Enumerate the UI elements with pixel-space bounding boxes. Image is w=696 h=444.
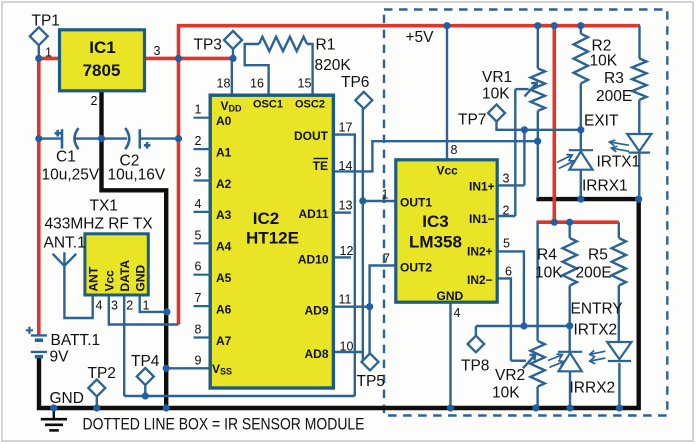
dashed IR sensor module box [384,10,667,416]
IC2 HT12E box [210,95,333,388]
wire VR2 top lead [536,222,538,341]
svg-text:TP7: TP7 [458,112,486,129]
potentiometer VR1 wiper arrow [525,83,537,97]
svg-text:A5: A5 [216,271,232,285]
svg-text:9: 9 [195,353,202,367]
node VR1 bottom TE joint [534,138,541,145]
wire IRTX2 cathode to ground [618,363,620,408]
resistor R3 200E [632,59,646,100]
svg-text:R5: R5 [588,247,608,264]
svg-text:IRRX1: IRRX1 [582,178,628,195]
svg-text:EXIT: EXIT [584,113,619,130]
svg-text:A3: A3 [216,208,232,222]
svg-text:IC1: IC1 [89,38,115,57]
svg-text:13: 13 [339,199,353,213]
wire lower +5V rail (red) [536,220,618,224]
wire IC2 pin10 AD8 stub [335,351,363,353]
svg-text:10K: 10K [492,385,520,402]
svg-text:2: 2 [91,94,98,108]
wire TX1 pin3 vcc to +9V [109,296,179,324]
svg-text:TP8: TP8 [461,358,489,375]
svg-text:TP3: TP3 [194,37,222,54]
svg-text:5: 5 [503,237,510,251]
wire TX1 pin4 to antenna [64,266,92,318]
svg-text:ANT: ANT [87,266,101,291]
svg-text:A2: A2 [216,177,232,191]
svg-text:10K: 10K [482,86,510,103]
wire VR2 wiper lead [511,360,526,362]
svg-text:LM358: LM358 [409,233,462,252]
svg-text:18: 18 [217,77,231,91]
svg-text:OUT1: OUT1 [400,196,432,210]
svg-text:R4: R4 [537,247,557,264]
svg-text:4: 4 [195,197,202,211]
node OUT2 AD9 joint [366,303,373,310]
wire R5 top lead [618,222,620,238]
wire R2 bottom lead to IRRX1 [580,83,582,150]
resistor R4 10K [563,238,577,286]
svg-text:TP2: TP2 [88,365,116,382]
test point TP6 [355,92,372,109]
IC2 pin2 stub [194,148,211,150]
node TX gnd joint [163,308,170,315]
IC2 pin3 stub [194,179,211,181]
node R2 top rail joint [577,22,584,29]
wire IC2 pin9 VSS to ground [166,367,208,369]
wire IC2 pin18 VDD [231,58,233,93]
node TP2 gnd joint [93,404,100,411]
test point TP7 [488,105,505,122]
svg-text:2: 2 [126,299,133,313]
wire R4 bottom to IRRX2 [569,286,571,352]
wire VR1 bottom lead to ground corner [537,111,539,198]
svg-text:+5V: +5V [406,29,435,46]
ground symbol [41,408,67,430]
potentiometer VR1 10K body [531,68,545,111]
svg-text:433MHZ RF TX: 433MHZ RF TX [45,216,154,233]
node C1 C2 center [98,135,105,142]
wire DOUT pin17 down [335,135,355,396]
node +9V junction [175,55,182,62]
svg-text:R1: R1 [316,37,336,54]
TX1 module box [85,234,148,295]
wire IC1 pin1 input (red) [39,57,59,61]
wire IC2 pin11 AD9 stub [335,306,370,308]
svg-text:17: 17 [339,121,353,135]
node IN1+ TP7 joint [521,126,528,133]
wire R4 top lead [569,222,571,238]
wire +9V vertical to TX vcc (red) [177,58,181,324]
svg-text:ANT.1: ANT.1 [44,235,86,252]
node IRRX1 black bus joint [577,196,584,203]
IC2 pin7 stub [194,305,211,307]
svg-text:2: 2 [503,204,510,218]
node R4 top rail joint [566,219,573,226]
wire IC2 pin13 stub [335,211,351,213]
node R2 IRRX1 joint [577,126,584,133]
svg-text:IN1+: IN1+ [469,180,495,194]
svg-text:IRRX2: IRRX2 [570,380,616,397]
wire R3 top lead [638,26,640,59]
wire TP8 stem [475,326,477,336]
test point TP8 [468,336,485,353]
svg-text:10K: 10K [590,53,618,70]
wire IC1 pin3 output to TP3 (red) [146,57,233,61]
wire IC3 pin8 vcc [446,26,448,159]
svg-text:AD11: AD11 [298,207,328,221]
wire R1 right lead to OSC2 pin15 [307,44,313,94]
svg-text:6: 6 [195,260,202,274]
svg-text:TP6: TP6 [341,74,369,91]
wire VR1 wiper lead [515,88,528,90]
wire R5 bottom to IRTX2 anode [618,286,620,343]
svg-text:3: 3 [195,166,202,180]
node VR2 gnd joint [532,404,539,411]
node IRRX2 gnd joint [566,404,573,411]
svg-text:12: 12 [340,244,354,258]
node IRTX2 gnd joint [616,404,623,411]
svg-text:TE: TE [313,159,328,173]
wire IC3 pin5 IN2+ down [499,251,524,326]
wire VR1 top lead [537,26,539,69]
svg-text:IN2−: IN2− [467,273,493,287]
svg-text:BATT.1: BATT.1 [51,332,101,349]
capacitor C1 10u,25V [55,128,79,149]
node IRTX1 black corner joint [635,196,642,203]
svg-text:200E: 200E [576,265,612,282]
node C2 rail right [175,135,182,142]
svg-text:C1: C1 [56,149,76,166]
node black bus gnd joint [163,404,170,411]
svg-text:10u,25V: 10u,25V [42,167,100,184]
svg-text:AD8: AD8 [304,347,328,361]
svg-text:OUT2: OUT2 [400,261,432,275]
svg-text:3: 3 [111,299,118,313]
test point TP4 [137,368,154,385]
svg-text:15: 15 [298,77,312,91]
svg-text:TP5: TP5 [357,373,385,390]
svg-text:200E: 200E [596,88,632,105]
node +5V drop rail joint [551,22,558,29]
svg-text:5: 5 [195,228,202,242]
svg-text:VR1: VR1 [482,69,512,86]
IC2 pin4 stub [194,211,211,213]
IC1 7805 box [60,30,145,91]
svg-text:A4: A4 [216,240,232,254]
svg-text:TP4: TP4 [131,353,160,370]
wire IRTX1 cathode to black corner [638,153,640,198]
svg-text:A7: A7 [216,334,232,348]
svg-text:8: 8 [451,143,458,157]
wire TX1 pin2 data down [123,296,125,396]
svg-text:GND: GND [134,265,148,292]
node IC3 pin4 gnd joint [447,404,454,411]
IC2 pin6 stub [194,274,211,276]
wire IC2 pin12 stub [335,256,351,258]
test point TP1 [30,27,48,45]
svg-text:ENTRY: ENTRY [571,301,623,318]
potentiometer VR2 10K body [530,341,544,387]
wire capacitor rail right segment [140,137,179,139]
wire IC3 pin6 IN2- to VR2 wiper [499,278,511,360]
wire IC3 pin3 IN1+ [499,130,525,186]
wire IRRX1 anode to black bus [580,170,582,198]
svg-text:10K: 10K [535,265,563,282]
wire TX1 pin1 gnd to black bus [140,296,167,312]
IC2 pin1 stub [194,117,211,119]
wire ground bus (black) [39,199,639,408]
IRRX2 receive arrows [548,354,564,367]
svg-text:HT12E: HT12E [246,229,299,248]
svg-text:1: 1 [45,46,52,60]
antenna ANT.1 [53,252,77,265]
wire OUT1 pin1 horizontal [363,200,395,202]
node lower rail drop joint [551,219,558,226]
battery BATT.1 9V [26,327,47,357]
wire TP1 stem [38,45,40,58]
IC2 pin5 stub [194,242,211,244]
node TP1 junction [35,55,42,62]
wire TP7 stem and IN1+ line [497,121,581,130]
wire capacitor rail middle segment [75,137,128,139]
resistor R2 10K [574,34,588,84]
wire capacitor rail left segment [39,137,62,139]
wire TP6 OUT1 AD8 vertical [362,109,364,361]
wire +5V top rail (red) [179,26,641,59]
svg-text:A1: A1 [216,145,232,159]
svg-text:16: 16 [250,77,264,91]
svg-text:R3: R3 [604,70,624,87]
svg-text:DATA: DATA [118,260,132,292]
svg-text:GND: GND [50,390,84,407]
wire TP3 stem [232,49,234,58]
wire VR2 bottom lead [536,387,538,408]
svg-text:DOTTED LINE BOX = IR SENSOR MO: DOTTED LINE BOX = IR SENSOR MODULE [83,415,365,434]
IC3 LM358 box [396,160,497,302]
svg-text:9V: 9V [50,349,70,366]
wire R1 left lead loop to OSC1 pin16 [245,44,269,94]
svg-text:IC2: IC2 [253,209,279,228]
node OUT1 AD11 joint [359,197,366,204]
svg-text:2: 2 [195,134,202,148]
capacitor C2 10u,16V [125,128,150,149]
wire +5V drop to lower rail (red) [552,26,556,223]
wire R3 bottom to IRTX1 anode [638,100,640,134]
svg-text:GND: GND [437,289,464,303]
IR photodiode IRRX1 [569,150,593,170]
svg-text:7: 7 [383,252,390,266]
IC2 pin8 stub [194,336,211,338]
svg-text:A6: A6 [216,302,232,316]
IR LED IRTX1 [627,134,651,153]
wire IC3 pin2 IN1- to VR1 wiper [499,89,516,216]
test point TP3 [224,31,242,49]
node C1 rail left [35,135,42,142]
svg-text:IRTX1: IRTX1 [597,154,641,171]
wire TE pin14 to VR1 bottom net [335,141,538,171]
svg-text:6: 6 [505,265,512,279]
svg-text:A0: A0 [216,114,232,128]
node IC3 pin8 rail joint [443,22,450,29]
wire IC3 pin4 gnd [449,304,451,408]
IRTX2 emit arrows [590,350,606,363]
svg-text:1: 1 [382,188,389,202]
svg-text:11: 11 [339,293,352,307]
wire IN2+ node line TP8 to IRRX2 [476,325,570,327]
svg-text:Vcc: Vcc [102,270,116,292]
svg-text:VR2: VR2 [495,367,525,384]
svg-text:10: 10 [340,340,354,354]
wire TP2 stem [96,397,98,408]
svg-text:1: 1 [143,299,150,313]
potentiometer VR2 wiper arrow [523,355,535,369]
svg-text:3: 3 [503,172,510,186]
svg-text:Vcc: Vcc [437,164,459,178]
wire R2 top lead [580,26,582,34]
node VSS joint [163,365,170,372]
svg-text:OSC1: OSC1 [253,99,283,111]
svg-text:DOUT: DOUT [294,129,329,143]
resistor R1 820K [259,37,307,51]
node TP4 data joint [142,392,149,399]
svg-text:IN2+: IN2+ [467,245,493,259]
svg-text:4: 4 [454,306,461,320]
svg-text:AD10: AD10 [298,253,329,267]
wire battery + vertical (red) [37,58,41,335]
svg-text:TX1: TX1 [90,198,118,215]
svg-text:1: 1 [195,103,202,117]
svg-text:10u,16V: 10u,16V [108,167,166,184]
node VR1 top rail joint [534,22,541,29]
wire IRRX2 anode to ground [569,371,571,407]
node R4 IRRX2 joint [566,322,573,329]
IRRX1 receive arrows [557,155,575,169]
wire DATA line TX to DOUT [124,395,355,397]
svg-text:3: 3 [154,44,161,58]
svg-text:IRTX2: IRTX2 [574,322,618,339]
svg-text:7805: 7805 [83,61,121,80]
node IN2+ pin5 joint [520,322,527,329]
svg-text:820K: 820K [315,57,352,74]
wire OUT2 pin7 to AD9 and TP5 [370,266,395,354]
svg-text:4: 4 [96,299,103,313]
svg-text:AD9: AD9 [304,304,328,318]
svg-text:8: 8 [195,323,202,337]
node gnd symbol joint [50,404,57,411]
wire IC1 pin2 to ground bus (black) [102,92,167,405]
svg-text:IN1−: IN1− [469,212,495,226]
wire TP4 stem [144,385,146,396]
svg-text:14: 14 [339,159,353,173]
svg-text:OSC2: OSC2 [295,99,325,111]
IR LED IRTX2 [607,342,631,361]
resistor R5 200E [612,238,626,286]
svg-text:TP1: TP1 [32,13,60,30]
test point TP2 [88,380,105,397]
IRTX1 emit arrows [609,140,629,152]
svg-text:7: 7 [195,291,202,305]
IR photodiode IRRX2 [558,352,582,372]
svg-text:IC3: IC3 [422,212,448,231]
node TP3 junction [229,55,236,62]
test point TP5 [362,353,379,370]
